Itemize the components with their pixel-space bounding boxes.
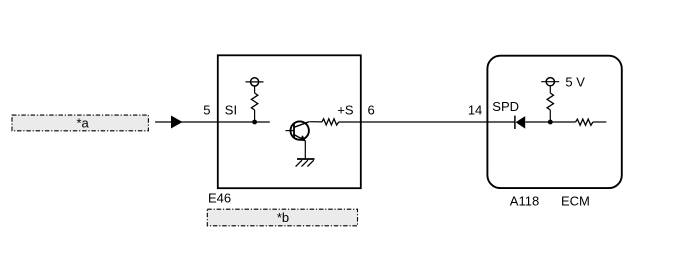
svg-text:*b: *b	[277, 210, 289, 225]
wire collector to resistor	[309, 121, 322, 123]
svg-text:+S: +S	[337, 102, 354, 117]
svg-text:5 V: 5 V	[565, 74, 585, 89]
ground	[296, 159, 315, 167]
transistor Q1	[286, 121, 309, 141]
wire emitter to ground	[304, 141, 306, 159]
svg-text:E46: E46	[208, 191, 231, 206]
connector box *a	[12, 115, 148, 131]
signal arrow	[171, 116, 183, 129]
junction SI node	[252, 120, 257, 125]
wire resistor to terminal	[549, 86, 551, 93]
wire SI	[219, 121, 270, 123]
ECU box E46	[218, 55, 361, 188]
wire input	[155, 121, 219, 123]
diode D1	[515, 116, 525, 129]
terminal (E46 pull-up supply)	[246, 78, 264, 86]
resistor R4 (ECM load)	[576, 119, 593, 125]
svg-text:6: 6	[368, 102, 375, 117]
wire resistor to junction	[254, 110, 256, 122]
junction SPD node	[548, 120, 553, 125]
wire load stub	[593, 121, 607, 123]
svg-text:*a: *a	[76, 115, 89, 130]
svg-text:14: 14	[468, 102, 482, 117]
terminal 5V	[541, 78, 559, 86]
wire terminal to resistor	[254, 86, 256, 93]
svg-text:5: 5	[203, 102, 210, 117]
connector box *b	[207, 209, 357, 226]
svg-text:A118: A118	[510, 193, 539, 208]
resistor R3 (ECM pull-up)	[547, 93, 553, 110]
wire diode to resistor	[525, 121, 575, 123]
svg-text:SI: SI	[225, 102, 237, 117]
resistor R1 (E46 pull-up)	[251, 93, 257, 110]
wire +S to diode	[339, 121, 515, 123]
resistor R2 (E46 output)	[322, 119, 339, 125]
svg-text:SPD: SPD	[492, 99, 519, 114]
ECM box	[487, 56, 621, 188]
wire junction to resistor	[549, 110, 551, 122]
svg-text:ECM: ECM	[561, 193, 590, 208]
